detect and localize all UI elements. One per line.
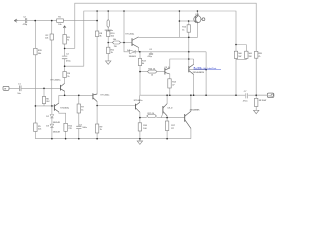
junction at (64.6,66.2) xyxy=(64,65,66,67)
resistor R17 Q1b emitter x=167.1 xyxy=(165,121,168,131)
resistor R7 NFB x=78.8 xyxy=(77,104,80,113)
svg-text:1W: 1W xyxy=(114,46,117,48)
junction at (140,71.6) xyxy=(139,71,141,73)
resistor R14 Q8 emitter x=169.5 xyxy=(168,79,171,88)
wire output cap plates xyxy=(246,93,248,98)
junction at (179.4,11) xyxy=(179,10,181,12)
resistor R16 Qd emitter x=139.9 xyxy=(138,123,141,131)
wire ladder left leg x=179.4 xyxy=(178,11,180,37)
resistor R24 oval VAS to Q8 xyxy=(148,70,157,73)
resistor R11 divider bottom x=108.2 xyxy=(107,47,110,53)
junction at (197.4,11) xyxy=(197,10,199,12)
diode D1 bootstrap horizontal xyxy=(130,50,136,54)
svg-text:Out: Out xyxy=(268,95,272,98)
wire driver base bus y=105.5 xyxy=(97,105,135,107)
svg-text:R25 10: R25 10 xyxy=(148,113,155,115)
svg-text:5W: 5W xyxy=(238,56,241,58)
svg-text:470u: 470u xyxy=(66,60,71,62)
junction at (139.8,51.8) xyxy=(139,51,141,53)
capacitor C3 NFB plates x=78.8 xyxy=(76,126,81,128)
svg-text:R24 10: R24 10 xyxy=(148,68,155,70)
wire Q1b base diagonal xyxy=(161,113,163,118)
svg-text:KTC4503a: KTC4503a xyxy=(51,80,62,82)
junction at (97.1,20.6) xyxy=(96,20,98,22)
junction at (236.0,95.2) xyxy=(235,94,237,96)
transistor Q2 left lower xyxy=(54,103,58,112)
junction at (167.1,95.2) xyxy=(166,94,168,96)
wire base bus y=105.9 xyxy=(35,105,54,107)
wire Qc collector x=190.9 xyxy=(190,95,192,111)
wire diode chain x=51.9 xyxy=(51,106,53,139)
junction at (188.6,21) xyxy=(188,20,190,22)
svg-text:C8_D: C8_D xyxy=(167,107,173,109)
junction at (35.4,105.9) xyxy=(35,105,37,107)
diode D2 bias chain upper xyxy=(50,115,53,118)
resistor R13 VAS load x=140 xyxy=(138,59,141,66)
wire bypass y=66.2 xyxy=(65,65,84,67)
input arrow left top xyxy=(14,19,17,22)
wire input line y=88.3 xyxy=(9,87,60,89)
junction at (78.8,138.7) xyxy=(78,138,80,140)
junction at (97.1,105.5) xyxy=(96,105,98,107)
junction at (193.6,95.2) xyxy=(193,94,195,96)
wire R-pair stem x=236 xyxy=(235,60,237,96)
ground bottom rail x=139.5 xyxy=(137,139,142,145)
junction at (124,42.5) xyxy=(123,42,125,44)
wire Q2 collector xyxy=(58,95,60,103)
svg-text:2N5404BRS: 2N5404BRS xyxy=(193,72,205,74)
capacitor C2 feedback bus plates xyxy=(25,18,26,23)
junction at (78.8,95.3) xyxy=(78,95,80,97)
wire Q1b emitter x=167.1 xyxy=(166,116,168,139)
resistor R22 oval bias mirror horizontal xyxy=(112,41,120,44)
svg-text:470u: 470u xyxy=(243,101,248,103)
junction at (206.1,69.6) xyxy=(205,69,207,71)
resistor R21 zobel x=256 xyxy=(255,98,258,106)
wire Qc emitter x=190.9 xyxy=(190,128,192,139)
junction at (188.8,37.3) xyxy=(188,37,190,39)
svg-text:KTD463a: KTD463a xyxy=(60,107,70,109)
wire feedback column x=35.4 xyxy=(34,21,36,139)
resistor R9 Qf emitter x=97.1 xyxy=(95,124,98,133)
wire Q4 collector bus y=37.3 xyxy=(139,36,198,38)
resistor R23 oval vertical x=108.2 xyxy=(107,20,109,28)
diode D3 bias chain lower xyxy=(50,124,53,127)
wire bias column x=188.8 xyxy=(188,21,190,66)
wire mirror link y=42.5 xyxy=(108,42,124,44)
wire bootstrap top y=48.4 xyxy=(65,47,75,49)
wire Q10 emitter drop x=197.6 xyxy=(197,23,199,38)
svg-text:1N4148: 1N4148 xyxy=(53,122,61,124)
wire NFB RC chain x=78.8 xyxy=(78,95,80,138)
resistor R6 input divider x=44 xyxy=(42,97,45,104)
junction at (139.5,138.7) xyxy=(139,138,141,140)
junction at (139.9,117.6) xyxy=(139,117,141,119)
svg-text:2N5088BK: 2N5088BK xyxy=(190,109,201,111)
resistor R18 parallel pair A x=236 xyxy=(234,51,237,58)
wire outer top rail B+ xyxy=(75,3,256,51)
junction at (188.8,59) xyxy=(188,58,190,60)
svg-text:KTD463a: KTD463a xyxy=(134,100,144,102)
svg-text:8R 30W: 8R 30W xyxy=(259,100,266,102)
wire out terminal stub xyxy=(256,94,267,96)
wire Q2 emitter path xyxy=(59,112,66,139)
resistor R12 Q2 emitter x=65.6 xyxy=(64,123,67,131)
wire Q4 emitter drop xyxy=(138,48,140,52)
junction at (167.1,117.6) xyxy=(166,117,168,119)
junction at (64.6,48.4) xyxy=(64,48,66,50)
ground divider x=108.2 xyxy=(106,60,111,65)
wire output rail y=95.2 xyxy=(140,94,267,96)
resistor R4 below C4 xyxy=(63,72,66,78)
resistor R10 divider top x=108.2 xyxy=(107,31,110,37)
junction at (35.2,20.6) xyxy=(34,20,36,22)
svg-text:KTC450a: KTC450a xyxy=(126,34,136,36)
wire Qf emitter chain x=97.1 xyxy=(96,101,98,138)
junction at (167.1,138.7) xyxy=(166,138,168,140)
wire driver ladder base y=21 xyxy=(179,20,195,22)
wire right zobel column x=256.2 xyxy=(255,58,257,95)
wire ground divider x=108.2 xyxy=(107,11,109,60)
junction at (206.1,95.2) xyxy=(205,94,207,96)
junction at (65.6,138.7) xyxy=(65,138,67,140)
terminal Out box xyxy=(267,93,274,97)
svg-text:C8_D: C8_D xyxy=(164,67,170,69)
capacitor C4 bypass plates x=64.6 xyxy=(62,56,67,59)
junction at (51.75,20.6) xyxy=(51,20,53,22)
junction at (97.1,11) xyxy=(96,10,98,12)
wire Q10 collector to rail xyxy=(196,11,198,16)
transistor Q1b output upper xyxy=(163,104,167,116)
resistor R15 ladder x=188.8 xyxy=(187,25,190,32)
transistor Qa VAS upper xyxy=(189,64,194,74)
transistor Q8 bias xyxy=(165,68,170,75)
svg-text:10: 10 xyxy=(151,75,153,77)
wire Q1 emitter to Qf base y=95.3 xyxy=(59,91,93,95)
resistor R20 right upper x=256.2 xyxy=(255,51,258,58)
wire Qd emitter R drop x=139.9 xyxy=(139,118,141,139)
resistor R1 horizontal on feedback bus xyxy=(57,19,64,22)
wire R-pair top bus xyxy=(236,45,246,52)
wire bias column x=51.75 xyxy=(51,21,53,106)
junction at (190.9,95.2) xyxy=(190,94,192,96)
wire Q4 base y=42.5 xyxy=(124,42,132,44)
capacitor C5 stub and plates xyxy=(149,52,153,55)
wire VAS column x=140 xyxy=(139,52,141,95)
wire bootstrap drop x=206.1 xyxy=(205,52,207,95)
wire feedback blue node y=69.6 xyxy=(189,69,206,71)
junction at (44,88.3) xyxy=(43,88,45,90)
wire Qa collector xyxy=(193,59,195,65)
wire input top feedback bus y=20.6 xyxy=(18,20,97,22)
junction at (188.8,51.8) xyxy=(188,51,190,53)
transistor Q4 mirror xyxy=(132,37,139,48)
wire Qd collector xyxy=(139,95,141,102)
resistor R8 Qf collector feed x=97.1 xyxy=(95,31,98,37)
junction at (256.2,95.2) xyxy=(255,94,257,96)
junction at (179.4,21) xyxy=(179,20,181,22)
wire Q8 collector y=59 xyxy=(170,59,194,68)
wire Qa emitter x=193.6 xyxy=(193,74,195,95)
wire inner top rail xyxy=(84,11,236,66)
junction at (108.2,42.5) xyxy=(107,42,109,44)
svg-text:10u: 10u xyxy=(17,93,20,95)
wire zobel lower x=256.2 xyxy=(255,95,257,109)
resistor R5 feedback bottom x=35.4 xyxy=(34,123,37,132)
wire input divider x=44 xyxy=(43,88,45,106)
wire Q8 emitter chain xyxy=(169,74,171,95)
wire Q1 collector chain x=64.6 xyxy=(64,28,66,83)
ground zobel x=256 xyxy=(254,109,259,113)
junction at (169.8,95.2) xyxy=(169,94,171,96)
svg-text:1N4003: 1N4003 xyxy=(129,56,137,58)
wire bias oval y=71.6 xyxy=(140,71,165,73)
wire mirror column x=124 xyxy=(123,11,125,43)
junction at (51.9,138.7) xyxy=(51,138,53,140)
capacitor C1 input coupling plates xyxy=(20,86,21,92)
svg-text:1N4148: 1N4148 xyxy=(53,132,61,134)
resistor R19 parallel pair B x=246.3 xyxy=(245,51,248,58)
junction at (124,11) xyxy=(123,10,125,12)
svg-text:100u: 100u xyxy=(82,127,87,129)
terminal IN box xyxy=(3,86,9,90)
svg-text:KTC450a: KTC450a xyxy=(101,94,111,96)
wire diode feed xyxy=(124,43,129,52)
wire Q1b collector x=167.1 xyxy=(166,95,168,104)
transistor Qf feedback xyxy=(93,93,97,101)
resistor R2 bias top x=51.75 xyxy=(50,34,53,40)
connector bubble right of Q10 xyxy=(201,18,205,21)
resistor R26 feedback upper x=35.4 xyxy=(34,48,37,55)
resistor R3 chain x=64.6 xyxy=(63,35,66,45)
junction at (108.2,11) xyxy=(107,10,109,12)
transistor Qc output lower xyxy=(185,111,191,128)
transistor Qd driver xyxy=(136,102,140,112)
transistor Q1 input xyxy=(61,83,65,91)
wire bottom rail V- y=138.7 xyxy=(35,138,191,140)
junction at (51.9,105.9) xyxy=(51,105,53,107)
wire bootstrap bus y=51.8 xyxy=(135,51,206,53)
junction at (97.1,138.7) xyxy=(96,138,98,140)
junction at (236.0,44.5) xyxy=(235,44,237,46)
wire Qd emitter bus y=117.6 xyxy=(140,112,185,118)
wire Qf collector column x=97.1 xyxy=(96,11,98,94)
transistor Q10 top right circled xyxy=(194,16,201,23)
wire R-pair bottom bus xyxy=(236,58,246,59)
resistor R25 oval driver bus xyxy=(147,115,157,118)
power arrow up x=64.6 xyxy=(63,26,66,29)
svg-text:5W: 5W xyxy=(249,56,252,58)
junction at (64.6,95.3) xyxy=(64,95,66,97)
svg-text:2N5088a: 2N5088a xyxy=(105,30,114,32)
